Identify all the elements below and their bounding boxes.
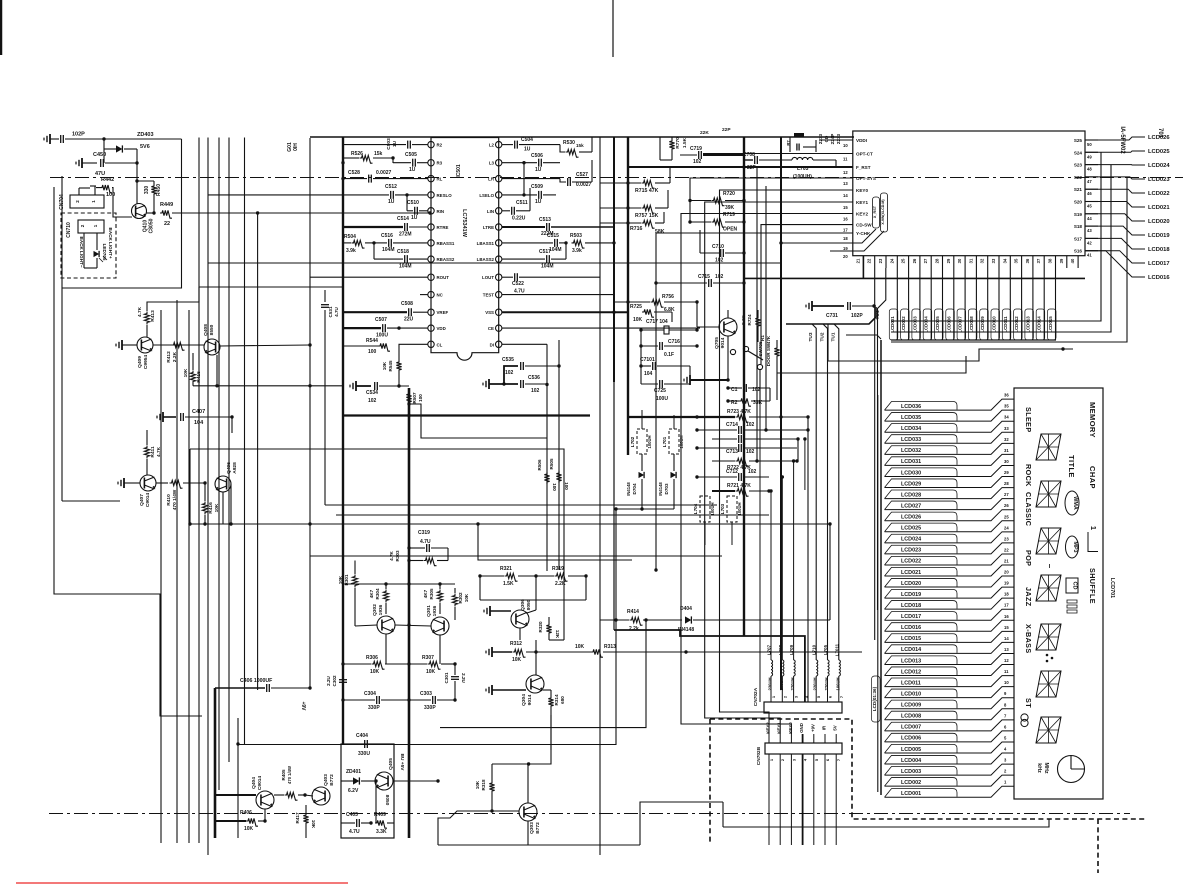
wire KEY1 net xyxy=(705,202,853,734)
svg-text:104: 104 xyxy=(194,420,204,426)
svg-text:ROUT: ROUT xyxy=(437,275,450,280)
rotated net label LCD(01:36) xyxy=(872,676,881,722)
capacitor C536 102 with ground xyxy=(488,379,490,389)
LCD wire LCD026 xyxy=(885,510,1015,521)
power bus x238 xyxy=(237,718,239,838)
svg-text:R410: R410 xyxy=(166,494,172,506)
svg-text:R716: R716 xyxy=(630,226,643,232)
svg-text:10: 10 xyxy=(843,143,848,148)
svg-text:R715 47K: R715 47K xyxy=(635,188,659,194)
capacitor C511 0.22U xyxy=(511,207,513,215)
svg-text:VDD: VDD xyxy=(437,326,446,331)
svg-text:KEY0: KEY0 xyxy=(856,188,868,193)
wire y584 xyxy=(343,583,455,585)
IC501 pin VREF xyxy=(428,309,434,315)
IC501 pin LR xyxy=(496,175,502,181)
svg-text:VDDI: VDDI xyxy=(856,138,867,143)
svg-text:L7011: L7011 xyxy=(834,643,839,656)
svg-text:LCD002: LCD002 xyxy=(901,780,921,786)
svg-text:LCD026: LCD026 xyxy=(901,515,921,521)
resistor R1 47K vertical xyxy=(774,346,779,358)
svg-text:12: 12 xyxy=(843,170,848,175)
svg-text:R757 15K: R757 15K xyxy=(635,213,659,219)
svg-text:18: 18 xyxy=(843,236,848,241)
inductor L708 100UH xyxy=(782,660,784,676)
svg-text:2.2U: 2.2U xyxy=(326,675,331,685)
svg-text:C511: C511 xyxy=(516,200,528,206)
svg-text:0.0027: 0.0027 xyxy=(576,182,592,188)
resistor R414 2.2k xyxy=(630,617,643,625)
IC501 pin ROUT xyxy=(428,274,434,280)
svg-text:C509: C509 xyxy=(531,184,543,190)
wire S-net jog A xyxy=(828,324,1073,361)
capacitor C319 4.7U xyxy=(426,544,428,552)
IC501 pin RIN xyxy=(428,208,434,214)
capacitor C731 102P with ground xyxy=(811,301,813,311)
IC701 pin 45 S20 xyxy=(1085,201,1098,203)
infinity symbol xyxy=(1021,714,1028,721)
svg-text:40: 40 xyxy=(1070,258,1075,263)
LCD side line x878 xyxy=(877,395,879,792)
svg-text:OPEN: OPEN xyxy=(723,227,738,233)
transistor Q405 8050 xyxy=(375,772,393,790)
svg-text:21: 21 xyxy=(1004,559,1009,564)
IC701 pin 47 S22 xyxy=(1085,176,1098,178)
TU3 wire xyxy=(812,324,816,660)
capacitor C7101 104 xyxy=(652,362,654,370)
svg-text:D704: D704 xyxy=(632,483,637,494)
svg-text:29: 29 xyxy=(1004,470,1009,475)
LCD wire LCD006 xyxy=(885,731,1015,742)
svg-text:14: 14 xyxy=(1004,636,1009,641)
svg-text:15: 15 xyxy=(843,205,848,210)
capacitor C522 4.7U xyxy=(514,273,516,281)
svg-text:24: 24 xyxy=(1004,525,1009,530)
wire y556 net xyxy=(310,555,722,557)
wire vertical x229 xyxy=(228,138,230,763)
svg-text:10K: 10K xyxy=(475,780,480,789)
svg-text:10K: 10K xyxy=(214,503,220,512)
svg-text:22: 22 xyxy=(867,258,872,263)
svg-text:1U: 1U xyxy=(392,140,398,147)
svg-text:LCD010: LCD010 xyxy=(992,316,997,333)
svg-text:102: 102 xyxy=(368,398,377,404)
svg-text:2233: 2233 xyxy=(818,133,823,144)
svg-text:L710: L710 xyxy=(812,644,817,655)
svg-text:C708: C708 xyxy=(743,152,755,158)
IC501 pin NC xyxy=(428,291,434,297)
svg-text:27: 27 xyxy=(923,258,928,263)
svg-text:C512: C512 xyxy=(385,184,397,190)
svg-text:LCD010: LCD010 xyxy=(901,691,921,697)
capacitor C1 102 xyxy=(743,384,745,392)
svg-text:R720: R720 xyxy=(723,191,735,197)
svg-text:C9014: C9014 xyxy=(257,776,263,790)
svg-text:39: 39 xyxy=(1059,258,1064,263)
svg-text:(100UH): (100UH) xyxy=(793,174,812,180)
wire TEST xyxy=(502,294,614,296)
resistor R505 100 vertical xyxy=(556,471,561,483)
capacitor C725 100U xyxy=(659,380,661,388)
svg-text:S18: S18 xyxy=(1074,224,1083,229)
svg-text:1U: 1U xyxy=(411,215,418,221)
transistor Q302 1936 xyxy=(377,616,395,634)
capacitor C528 0.0027 xyxy=(368,175,370,183)
resistor R303 4.7K xyxy=(424,558,437,566)
backlight dashed enclosure xyxy=(61,213,116,278)
IC U501 LC75341W body xyxy=(431,138,499,361)
svg-text:C510: C510 xyxy=(407,200,419,206)
svg-text:LCD025: LCD025 xyxy=(901,526,921,532)
svg-text:LCD701: LCD701 xyxy=(1109,578,1115,598)
page alignment mark top-center xyxy=(612,0,614,57)
svg-text:R306: R306 xyxy=(366,655,378,661)
svg-text:0IH: 0IH xyxy=(293,143,299,151)
resistor R301 10K vertical xyxy=(352,575,357,588)
svg-text:LCD019: LCD019 xyxy=(901,592,921,598)
svg-text:100: 100 xyxy=(564,482,569,490)
svg-text:17: 17 xyxy=(1004,603,1009,608)
LCD wire LCD001 xyxy=(885,786,1015,797)
vertical x536 v xyxy=(535,640,537,652)
power bus vertical x343 xyxy=(342,137,344,744)
svg-text:44: 44 xyxy=(1087,216,1092,221)
svg-text:4.7U: 4.7U xyxy=(334,306,339,316)
wire +9V to CN702B xyxy=(238,744,616,746)
svg-text:13: 13 xyxy=(843,181,848,186)
svg-text:9014: 9014 xyxy=(720,337,726,348)
LCD wire LCD027 xyxy=(885,499,1015,510)
svg-text:102: 102 xyxy=(748,469,757,475)
svg-text:R505: R505 xyxy=(549,458,554,469)
svg-text:L705: L705 xyxy=(823,644,828,655)
svg-text:9014: 9014 xyxy=(527,694,533,705)
svg-text:10K: 10K xyxy=(183,368,189,377)
capacitor C506 1U xyxy=(538,159,540,167)
svg-text:LCD032: LCD032 xyxy=(901,448,921,454)
resistor R770 vertical xyxy=(669,139,674,151)
wire x325 vertical with C531 xyxy=(324,290,326,302)
LCD wire LCD033 xyxy=(885,432,1015,443)
svg-text:R413: R413 xyxy=(150,310,156,322)
resistor R313 wire xyxy=(591,649,603,657)
svg-text:KEY1: KEY1 xyxy=(856,200,868,205)
svg-text:D404: D404 xyxy=(680,606,692,612)
capacitor C515 104M xyxy=(554,239,556,247)
svg-text:21: 21 xyxy=(855,258,860,263)
svg-text:S20: S20 xyxy=(1074,200,1083,205)
svg-text:16: 16 xyxy=(1004,614,1009,619)
resistor R410 470 1/4W xyxy=(170,480,183,488)
svg-text:SW705: SW705 xyxy=(758,341,763,357)
svg-text:S19: S19 xyxy=(1074,212,1083,217)
svg-text:220UH: 220UH xyxy=(768,677,773,690)
LCD wire LCD019 xyxy=(885,587,1015,598)
inductor L703b dashed xyxy=(727,496,737,522)
svg-text:R506: R506 xyxy=(537,459,542,470)
svg-text:R321: R321 xyxy=(500,566,512,572)
svg-text:102: 102 xyxy=(746,449,755,455)
transistor Q409 C9954 xyxy=(137,337,153,353)
svg-text:TU1: TU1 xyxy=(831,332,837,341)
transistor Q403 B772 xyxy=(312,787,330,805)
wire y287 xyxy=(199,286,343,288)
svg-text:MEMORY: MEMORY xyxy=(1088,402,1097,438)
svg-text:LCD026: LCD026 xyxy=(1148,135,1170,141)
svg-text:LCD(01:36): LCD(01:36) xyxy=(872,686,877,711)
LCD wire LCD022 xyxy=(885,554,1015,565)
wire OPT-CT net xyxy=(703,153,853,155)
svg-text:104: 104 xyxy=(644,371,653,377)
svg-text:104M: 104M xyxy=(541,264,554,270)
svg-text:LCD001: LCD001 xyxy=(901,791,921,797)
CN702B pin 5 +9V xyxy=(813,734,815,743)
svg-text:1U: 1U xyxy=(409,167,416,173)
IC701 pin 44 S19 xyxy=(1085,213,1098,215)
svg-text:10K: 10K xyxy=(311,820,316,829)
wire x757 xyxy=(756,166,758,461)
svg-text:LCD033: LCD033 xyxy=(901,437,921,443)
resistor R318 10K vertical xyxy=(489,781,494,793)
LCD wire LCD032 xyxy=(885,443,1015,454)
svg-text:1936: 1936 xyxy=(378,604,384,615)
svg-text:15k: 15k xyxy=(576,143,584,148)
LCD wire LCD009 xyxy=(885,698,1015,709)
svg-text:IN4148: IN4148 xyxy=(658,482,663,496)
svg-text:4.7U: 4.7U xyxy=(349,829,360,835)
inductor L705 220UH xyxy=(828,660,830,676)
svg-text:34: 34 xyxy=(1004,415,1009,420)
resistor R415 10K vertical xyxy=(190,371,195,384)
svg-text:B772: B772 xyxy=(535,822,541,834)
svg-text:102: 102 xyxy=(715,274,724,280)
svg-text:C8050: C8050 xyxy=(149,218,155,233)
svg-text:Q405: Q405 xyxy=(388,758,394,770)
svg-text:TU4: TU4 xyxy=(875,310,881,319)
svg-text:LBASS2: LBASS2 xyxy=(477,257,495,262)
svg-text:4.7U: 4.7U xyxy=(420,539,431,545)
svg-text:LCD006: LCD006 xyxy=(946,316,951,333)
LCD left bus thick xyxy=(880,340,882,795)
svg-text:48: 48 xyxy=(1087,167,1092,172)
LCD wire LCD005 xyxy=(885,742,1015,753)
wire y505 net xyxy=(325,504,717,506)
svg-text:3.9k: 3.9k xyxy=(346,248,356,254)
chain border line bottom xyxy=(49,813,1130,815)
svg-text:LCD013: LCD013 xyxy=(1025,316,1030,333)
svg-text:Q407: Q407 xyxy=(139,494,145,506)
svg-text:LCD011: LCD011 xyxy=(1003,316,1008,333)
IC701 pin 49 S24 xyxy=(1085,151,1098,153)
svg-text:10K: 10K xyxy=(244,826,254,832)
capacitor C505 1U xyxy=(412,159,414,167)
LCD wire LCD015 xyxy=(885,631,1015,642)
svg-text:39K: 39K xyxy=(725,205,735,211)
capacitor C513 222M xyxy=(546,223,548,231)
IC501 pin VSS xyxy=(496,309,502,315)
svg-text:23: 23 xyxy=(1004,536,1009,541)
resistor R725 10K xyxy=(642,309,654,317)
svg-text:LCD013: LCD013 xyxy=(901,658,921,664)
svg-text:102: 102 xyxy=(715,258,724,264)
svg-text:Q304: Q304 xyxy=(521,694,527,706)
svg-text:C304: C304 xyxy=(364,691,376,697)
svg-text:R314: R314 xyxy=(554,694,559,705)
svg-text:C302: C302 xyxy=(332,675,337,686)
IC501 pin LBASS2 xyxy=(496,256,502,262)
wire CE xyxy=(502,327,700,329)
svg-text:LCD023: LCD023 xyxy=(901,548,921,554)
LCD wire LCD034 xyxy=(885,421,1015,432)
svg-text:LCD024: LCD024 xyxy=(1148,163,1170,169)
svg-text:31: 31 xyxy=(968,258,973,263)
long wires to TU coils xyxy=(829,524,831,620)
IC701 pin 48 S23 xyxy=(1085,164,1098,166)
LCD wire LCD017 xyxy=(885,609,1015,620)
resistor R320 12K vertical xyxy=(546,623,551,635)
svg-text:2.2K: 2.2K xyxy=(172,351,178,362)
svg-text:C710: C710 xyxy=(712,244,724,250)
play arrow stack xyxy=(1067,600,1077,613)
svg-text:LCD008: LCD008 xyxy=(969,316,974,333)
svg-text:16: 16 xyxy=(843,217,848,222)
svg-text:CLASSIC: CLASSIC xyxy=(1024,492,1033,526)
LCD wire LCD023 xyxy=(885,543,1015,554)
resistor R503 3.9k xyxy=(572,240,585,248)
svg-text:100UH: 100UH xyxy=(679,435,684,448)
transistor Q303 B772 xyxy=(519,803,537,821)
wire KEY2 net xyxy=(681,214,853,735)
resistor R405 470 1/4W xyxy=(285,792,298,800)
wire F_RST thick xyxy=(628,166,853,168)
svg-text:CN704: CN704 xyxy=(59,194,65,210)
svg-text:CL: CL xyxy=(437,342,443,347)
svg-text:+9V: +9V xyxy=(810,724,815,732)
svg-text:CD-SW: CD-SW xyxy=(856,223,872,228)
svg-text:100UH: 100UH xyxy=(779,677,784,690)
colon dots xyxy=(1046,654,1049,657)
svg-text:220UH: 220UH xyxy=(813,677,818,690)
svg-text:1: 1 xyxy=(1089,526,1098,530)
staircase wire left xyxy=(54,187,202,716)
svg-text:8550: 8550 xyxy=(209,324,215,335)
svg-text:C9014: C9014 xyxy=(145,493,151,507)
svg-text:R319: R319 xyxy=(552,566,564,572)
capacitor C406 1000UF xyxy=(266,684,268,692)
diode D703 IN4148 xyxy=(673,454,675,471)
capacitor C301 2.2U vertical xyxy=(451,676,459,678)
svg-text:SLEEP: SLEEP xyxy=(1024,407,1033,433)
switch net down xyxy=(759,370,761,702)
capacitor C716 0.1F xyxy=(659,342,661,350)
svg-text:LCD009: LCD009 xyxy=(980,316,985,333)
LCD wire LCD008 xyxy=(885,709,1015,720)
power bus x215 thick xyxy=(214,688,217,838)
svg-text:43: 43 xyxy=(1087,228,1092,233)
svg-text:R526: R526 xyxy=(351,151,363,157)
svg-text:R724: R724 xyxy=(747,314,752,325)
capacitor C708 22P xyxy=(754,156,756,164)
svg-text:58K: 58K xyxy=(655,229,665,235)
power box ZD401 Q405 xyxy=(341,744,394,838)
svg-text:41: 41 xyxy=(1087,253,1092,258)
svg-text:LCD005: LCD005 xyxy=(935,316,940,333)
svg-text:LCD012: LCD012 xyxy=(1014,316,1019,333)
capacitor C450 4.7U xyxy=(103,139,105,163)
svg-text:R1: R1 xyxy=(760,335,765,341)
svg-text:100: 100 xyxy=(418,394,423,402)
LCD feed horizontal collector y340 xyxy=(891,339,1056,341)
svg-text:DOOR SW: DOOR SW xyxy=(766,343,771,366)
svg-text:ZD401: ZD401 xyxy=(346,769,361,775)
IC501 pin RBASS2 xyxy=(428,256,434,262)
svg-text:L703: L703 xyxy=(720,503,725,514)
resistor R411 4.7K vertical xyxy=(144,446,149,459)
svg-text:C534: C534 xyxy=(366,390,378,396)
capacitor C514 272M xyxy=(404,223,406,231)
svg-text:C514: C514 xyxy=(397,216,409,222)
svg-text:KEY1: KEY1 xyxy=(777,722,782,734)
wire right feed 1 xyxy=(891,152,1101,321)
capacitor C512 1U xyxy=(390,191,392,199)
wire y509 bottom of diodes xyxy=(616,508,674,510)
svg-text:100UH: 100UH xyxy=(647,435,652,448)
resistor R412 2.2K xyxy=(172,342,185,350)
svg-text:12K: 12K xyxy=(555,630,560,639)
svg-text:R545: R545 xyxy=(388,360,393,371)
wire y515 net xyxy=(336,514,769,516)
IC701 bottom pin net lines LCD001-015 with tags xyxy=(896,268,898,340)
svg-text:LCD034: LCD034 xyxy=(901,426,921,432)
IC501 pin RL xyxy=(428,175,434,181)
svg-text:C535: C535 xyxy=(502,357,514,363)
svg-text:10K: 10K xyxy=(633,317,643,323)
svg-text:C303: C303 xyxy=(420,691,432,697)
svg-text:12: 12 xyxy=(1004,658,1009,663)
IC701 pin 50 S25 xyxy=(1085,139,1098,141)
LCD wire LCD016 xyxy=(885,620,1015,631)
capacitor C302 2.2U vertical xyxy=(339,679,347,681)
wire right feed 2 xyxy=(891,165,1111,332)
wire KEY0 net xyxy=(720,190,853,734)
svg-text:1.5K: 1.5K xyxy=(503,581,514,587)
svg-text:47: 47 xyxy=(1087,179,1092,184)
resistor R307 10K xyxy=(428,661,441,669)
dashed remote enclosure xyxy=(710,719,1145,819)
IC701 pin22 line xyxy=(874,268,876,640)
svg-text:–: – xyxy=(1045,564,1054,569)
svg-text:2.2K: 2.2K xyxy=(555,581,566,587)
capacitor C717 104 xyxy=(664,326,669,334)
svg-text:50: 50 xyxy=(1087,142,1092,147)
wire x808 xyxy=(807,417,809,702)
resistor R319 2.2K xyxy=(555,573,568,581)
svg-text:46: 46 xyxy=(1087,191,1092,196)
svg-text:C403: C403 xyxy=(346,812,358,818)
svg-text:BACK LIGHT+: BACK LIGHT+ xyxy=(108,227,113,258)
resistor R757 15K xyxy=(642,205,655,213)
svg-text:LED705: LED705 xyxy=(102,244,107,261)
IC501 pin LOUT xyxy=(496,274,502,280)
wire vertical x208 xyxy=(207,138,209,856)
svg-text:0.0027: 0.0027 xyxy=(376,170,392,176)
wire y600 net xyxy=(480,599,586,601)
capacitor C407 104 with ground xyxy=(162,412,164,422)
LCD wire LCD036 xyxy=(885,399,1015,410)
svg-text:1U: 1U xyxy=(524,147,531,153)
capacitor small y439 xyxy=(738,435,740,443)
resistor R756 6.8K xyxy=(651,299,664,307)
